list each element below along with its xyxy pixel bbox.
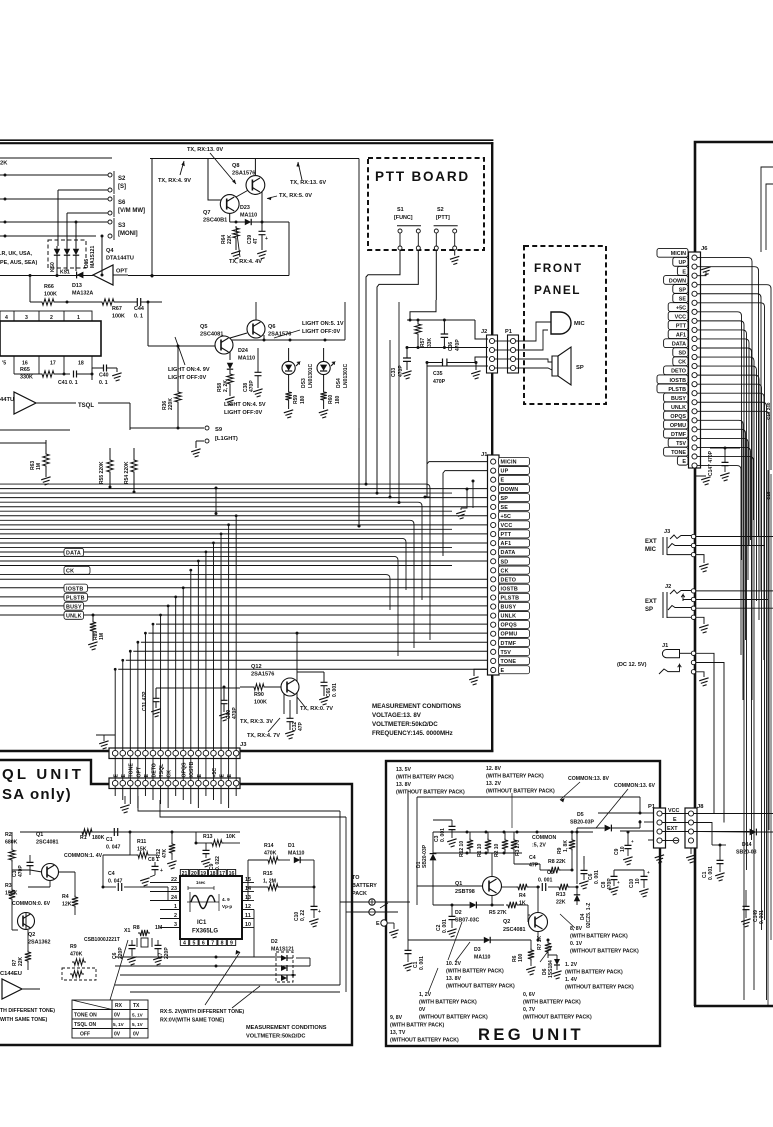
capacitor C41 0.1 xyxy=(74,371,77,378)
svg-text:MEASUREMENT CONDITIONS: MEASUREMENT CONDITIONS xyxy=(372,703,461,710)
svg-text:DATA: DATA xyxy=(672,342,686,348)
wire bus SD row xyxy=(0,560,488,562)
capacitor C1 0.047 tsql xyxy=(114,828,117,836)
wire right long verticals xyxy=(767,470,769,1006)
svg-text:R11: R11 xyxy=(137,839,146,845)
wire row S3 xyxy=(0,221,108,223)
ground ext sp xyxy=(696,617,704,624)
svg-text:IOSTB: IOSTB xyxy=(670,378,687,384)
svg-text:02CZ5. 1-Z: 02CZ5. 1-Z xyxy=(586,903,592,928)
svg-text:2SC40B1: 2SC40B1 xyxy=(203,218,227,224)
svg-text:0V: 0V xyxy=(114,1013,121,1019)
svg-text:MA110: MA110 xyxy=(240,213,257,219)
svg-text:0, 7V: 0, 7V xyxy=(523,1007,536,1013)
wire tsql top wire xyxy=(20,831,110,833)
wire q1 emitter xyxy=(491,896,493,906)
svg-text:2SA1576: 2SA1576 xyxy=(232,171,255,177)
svg-text:5: 5 xyxy=(192,941,195,947)
svg-text:MICIN: MICIN xyxy=(671,251,686,257)
svg-text:COMMON: COMMON xyxy=(532,835,556,841)
svg-text:C13 240: C13 240 xyxy=(766,402,771,420)
svg-text:470P: 470P xyxy=(455,339,461,351)
node J6 pin CK xyxy=(673,357,688,366)
svg-text:(WITHOUT BATTERY PACK): (WITHOUT BATTERY PACK) xyxy=(446,984,515,990)
svg-text:1. 4V: 1. 4V xyxy=(565,977,578,983)
node J1 pin OPQS xyxy=(499,620,530,628)
svg-text:(WITHOUT BATTERY PACK): (WITHOUT BATTERY PACK) xyxy=(390,1038,459,1044)
svg-text:J8: J8 xyxy=(697,804,704,810)
node J6 pin IOSTB xyxy=(657,375,688,384)
svg-text:J2: J2 xyxy=(665,584,671,590)
svg-text:VCC: VCC xyxy=(675,314,686,320)
wire ext sp out xyxy=(696,590,773,592)
svg-text:Q1: Q1 xyxy=(36,832,43,838)
svg-text:47P: 47P xyxy=(298,721,304,731)
svg-text:D2: D2 xyxy=(455,910,462,916)
resistor R13 22K reg xyxy=(557,884,570,890)
capacitor C44 0.1 xyxy=(137,298,140,306)
switch S6 [V/M MW] xyxy=(108,197,112,201)
resistor R89 1M xyxy=(92,615,94,620)
svg-text:SD: SD xyxy=(679,351,687,357)
svg-text:15K: 15K xyxy=(137,847,147,853)
svg-text:(WITHOUT BATTERY PACK): (WITHOUT BATTERY PACK) xyxy=(565,985,634,991)
svg-text:S2: S2 xyxy=(437,207,444,213)
wire top feed rail xyxy=(150,158,359,160)
svg-text:DATA: DATA xyxy=(66,551,81,557)
svg-text:OPQS: OPQS xyxy=(670,414,686,420)
svg-text:Q6: Q6 xyxy=(268,324,275,330)
svg-text:MA132A: MA132A xyxy=(72,291,93,297)
node J6 pin DETO xyxy=(664,366,688,375)
svg-text:2SA1362: 2SA1362 xyxy=(28,940,50,946)
svg-text:R1: R1 xyxy=(80,835,87,841)
node J1 pin DOWN xyxy=(499,485,530,493)
wire j1 gnd stub xyxy=(474,669,488,676)
svg-text:470P: 470P xyxy=(18,865,24,877)
svg-text:TX, RX:13. 0V: TX, RX:13. 0V xyxy=(187,147,223,153)
svg-text:0. 022: 0. 022 xyxy=(215,856,221,870)
svg-text:[V/M MW]: [V/M MW] xyxy=(118,208,145,214)
svg-text:OPT: OPT xyxy=(116,269,128,275)
node J6 pin BUSY xyxy=(664,393,688,402)
node J1 pin TONE xyxy=(499,657,530,665)
svg-text:IOSTB: IOSTB xyxy=(501,586,518,592)
svg-text:1, 2V: 1, 2V xyxy=(419,992,432,998)
wire led rail xyxy=(263,335,265,340)
svg-text:+: + xyxy=(160,868,163,874)
ground J6 E pin xyxy=(697,272,706,276)
wire main unit right border xyxy=(491,142,493,752)
node J6 pin OPMU xyxy=(664,420,688,429)
svg-text:[FUNC]: [FUNC] xyxy=(394,215,413,221)
svg-text:E: E xyxy=(227,774,233,778)
svg-text:5, 1V: 5, 1V xyxy=(132,1013,144,1018)
svg-text:E: E xyxy=(682,459,686,465)
svg-text:Q2: Q2 xyxy=(28,932,35,938)
svg-text:21: 21 xyxy=(182,871,188,877)
svg-text:16: 16 xyxy=(229,871,235,877)
node J6 pin UP xyxy=(673,257,688,266)
svg-text:IC1: IC1 xyxy=(197,920,207,926)
svg-text:12K: 12K xyxy=(62,902,72,908)
microphone MIC xyxy=(551,312,571,334)
switch S2 [S] xyxy=(108,173,112,177)
wire row S6 xyxy=(0,198,108,200)
svg-text:VOLTMETER:50kΩ/DC: VOLTMETER:50kΩ/DC xyxy=(372,721,438,728)
svg-text:(WITH BATTERY PACK): (WITH BATTERY PACK) xyxy=(419,1000,477,1006)
svg-text:MA110: MA110 xyxy=(238,356,255,362)
wire right unit border xyxy=(695,142,773,1006)
svg-text:J1: J1 xyxy=(662,643,668,649)
svg-text:COMMON:13. 6V: COMMON:13. 6V xyxy=(614,783,655,789)
svg-text:PLSTB: PLSTB xyxy=(668,387,686,393)
svg-text:18: 18 xyxy=(78,361,84,367)
svg-text:CK: CK xyxy=(678,360,686,366)
svg-text:R67: R67 xyxy=(112,306,122,312)
wire right edge stubs xyxy=(761,167,773,252)
svg-text:S1: S1 xyxy=(397,207,404,213)
wire q12 emitter xyxy=(296,693,298,714)
svg-text:REG UNIT: REG UNIT xyxy=(478,1026,584,1044)
svg-text:R66: R66 xyxy=(44,284,54,290)
svg-text:(WITH BATTERY PACK): (WITH BATTERY PACK) xyxy=(396,775,454,781)
svg-text:1: 1 xyxy=(77,315,80,321)
svg-text:4: 4 xyxy=(5,315,8,321)
svg-text:EXT: EXT xyxy=(645,539,657,545)
wire micin feed xyxy=(425,496,430,498)
node J6 pin TONE xyxy=(664,447,688,456)
svg-text:(WITHOUT BATTERY PACK): (WITHOUT BATTERY PACK) xyxy=(396,790,465,796)
wire row S2 xyxy=(0,174,108,176)
svg-text:.R, UK, USA,: .R, UK, USA, xyxy=(0,251,33,257)
op-amp buffer OPT xyxy=(93,265,113,285)
svg-text:8, 8V: 8, 8V xyxy=(570,926,583,932)
svg-text:Q8: Q8 xyxy=(232,163,239,169)
svg-text:+5C: +5C xyxy=(212,768,218,778)
svg-text:BUSY: BUSY xyxy=(66,604,82,610)
svg-text:PANEL: PANEL xyxy=(534,283,581,297)
svg-text:SP: SP xyxy=(501,496,509,502)
wire q2 collector xyxy=(537,887,539,913)
svg-text:8: 8 xyxy=(221,941,224,947)
svg-text:VOLTAGE:13. 8V: VOLTAGE:13. 8V xyxy=(372,712,422,719)
svg-text:0V: 0V xyxy=(114,1032,121,1038)
svg-text:D23: D23 xyxy=(240,205,250,211)
wire main unit bottom border xyxy=(0,750,493,752)
svg-text:VOLTMETER:50kΩ/DC: VOLTMETER:50kΩ/DC xyxy=(246,1034,305,1040)
node J6 pin OPQS xyxy=(664,411,688,420)
svg-text:R54 220K: R54 220K xyxy=(124,461,130,484)
svg-text:4. 9: 4. 9 xyxy=(222,897,230,902)
node battery minus xyxy=(369,909,375,915)
node J6 pin MICIN xyxy=(657,248,688,257)
svg-text:(WITH BATTERY PACK): (WITH BATTERY PACK) xyxy=(523,1000,581,1006)
node J6 pin PLSTB xyxy=(657,384,688,393)
svg-text:0. 1: 0. 1 xyxy=(99,380,108,386)
svg-text:C44: C44 xyxy=(134,306,144,312)
svg-text:TSQL ON: TSQL ON xyxy=(74,1022,97,1028)
svg-text:180: 180 xyxy=(300,395,306,404)
node J1 pin BUSY xyxy=(499,602,530,610)
wire to battery terminals xyxy=(340,901,371,903)
svg-text:TX, RX:4. 7V: TX, RX:4. 7V xyxy=(247,733,280,739)
svg-text:47P: 47P xyxy=(529,863,539,869)
svg-text:0. 047: 0. 047 xyxy=(106,845,121,851)
svg-text:MA110: MA110 xyxy=(288,851,305,857)
node BUSY xyxy=(0,605,488,607)
svg-text:OPT: OPT xyxy=(136,766,142,777)
svg-text:D3: D3 xyxy=(474,947,481,953)
svg-text:SB20-03: SB20-03 xyxy=(736,850,757,856)
svg-text:E: E xyxy=(501,668,505,674)
wire row lower xyxy=(0,235,96,237)
svg-text:TH DIFFERENT TONE): TH DIFFERENT TONE) xyxy=(0,1008,55,1014)
svg-text:0. 001: 0. 001 xyxy=(538,878,553,884)
svg-text:22K: 22K xyxy=(227,234,233,244)
svg-text:R1 10: R1 10 xyxy=(477,843,483,857)
svg-text:(WITH BATTERY PACK): (WITH BATTERY PACK) xyxy=(565,970,623,976)
svg-text:18: 18 xyxy=(210,871,216,877)
svg-text:C4: C4 xyxy=(108,871,115,877)
svg-text:[L1GHT): [L1GHT) xyxy=(215,436,238,442)
wire node rail lower xyxy=(407,347,488,349)
svg-text:13. 2V: 13. 2V xyxy=(486,781,502,787)
svg-text:R59: R59 xyxy=(293,395,299,404)
svg-text:7: 7 xyxy=(211,941,214,947)
svg-text:SP: SP xyxy=(679,287,687,293)
switch S3 [MONI] xyxy=(108,220,112,224)
svg-text:R13: R13 xyxy=(203,834,213,840)
svg-text:33K: 33K xyxy=(427,337,433,347)
svg-text:R12 10: R12 10 xyxy=(459,841,465,857)
wire c44 to q5 xyxy=(147,302,149,346)
wire j2 down xyxy=(426,363,428,498)
svg-text:13, TV: 13, TV xyxy=(390,1030,406,1036)
svg-text:2SC4081: 2SC4081 xyxy=(36,840,58,846)
node J1 pin UP xyxy=(499,466,530,474)
svg-text:(WITH BATTRY PACK): (WITH BATTRY PACK) xyxy=(390,1023,445,1029)
svg-text:PACK: PACK xyxy=(352,891,367,897)
svg-text:T5V: T5V xyxy=(501,650,512,656)
diode array D15 MA1S121 xyxy=(48,240,86,268)
ground ext mic xyxy=(696,555,704,563)
svg-text:R5 27K: R5 27K xyxy=(489,910,507,916)
svg-text:0. 001: 0. 001 xyxy=(759,910,765,924)
connector J3 bottom row xyxy=(109,778,240,789)
node battery plus xyxy=(369,899,375,905)
svg-text:DS3: DS3 xyxy=(301,378,307,388)
svg-text:J6: J6 xyxy=(701,246,708,252)
svg-text:DETO: DETO xyxy=(501,577,517,583)
svg-text:D1: D1 xyxy=(288,843,295,849)
svg-text:PLSTB: PLSTB xyxy=(66,595,85,601)
wire moni row xyxy=(0,275,93,277)
svg-text:C36: C36 xyxy=(448,342,454,351)
svg-text:D2: D2 xyxy=(271,939,278,945)
svg-text:680K: 680K xyxy=(5,840,18,846)
svg-text:0. 001: 0. 001 xyxy=(440,828,446,842)
resistor R4 1K reg xyxy=(516,884,529,890)
svg-text:IOSTB: IOSTB xyxy=(189,761,195,777)
svg-text:MIC: MIC xyxy=(574,321,585,327)
svg-text:PTT BOARD: PTT BOARD xyxy=(375,169,470,184)
svg-text:KS0: KS0 xyxy=(50,262,56,272)
svg-text:COMMON:13. 8V: COMMON:13. 8V xyxy=(568,776,609,782)
svg-text:C33: C33 xyxy=(391,368,397,377)
node J1 pin IOSTB xyxy=(499,584,530,592)
wire verticals to bus xyxy=(215,488,217,514)
svg-text:OFF: OFF xyxy=(80,1032,90,1038)
svg-text:180: 180 xyxy=(335,395,341,404)
svg-text:R4: R4 xyxy=(519,893,526,899)
svg-text:SP: SP xyxy=(645,607,653,613)
svg-text:2, 2K: 2, 2K xyxy=(223,380,229,392)
svg-text:C41 0. 1: C41 0. 1 xyxy=(58,380,78,386)
LED D53 LND1301C xyxy=(282,361,295,374)
svg-text:2SBT98: 2SBT98 xyxy=(455,889,475,895)
node J1 pin PLSTB xyxy=(499,593,530,601)
PTT BOARD box xyxy=(368,158,484,250)
svg-text:20: 20 xyxy=(191,871,197,877)
wire reg rail 855 xyxy=(433,852,522,854)
wire j2 pin4 xyxy=(427,365,488,367)
svg-text:OPQS: OPQS xyxy=(501,623,518,629)
wire reg leader 12.8 xyxy=(511,793,513,828)
svg-text:0. 001: 0. 001 xyxy=(332,683,338,697)
svg-text:PE, AUS, SEA): PE, AUS, SEA) xyxy=(0,260,37,266)
node J1 pin OPMU xyxy=(499,630,530,638)
wire q7 q8 links xyxy=(236,191,248,198)
svg-text:C1: C1 xyxy=(106,837,113,843)
table tone matrix xyxy=(72,1000,148,1038)
svg-text:TSQL: TSQL xyxy=(159,763,165,778)
node J1 pin DATA xyxy=(499,548,530,556)
svg-text:DTMF: DTMF xyxy=(501,641,517,647)
node UNLK xyxy=(0,614,488,616)
svg-text:SP: SP xyxy=(576,365,584,371)
node J6 pin VCC xyxy=(668,312,688,321)
svg-text:D5: D5 xyxy=(577,812,584,818)
svg-text:0V: 0V xyxy=(133,1032,140,1038)
svg-text:C15: C15 xyxy=(766,491,771,500)
svg-text:CK: CK xyxy=(167,770,173,778)
svg-text:E: E xyxy=(144,774,150,778)
wire j3 pin links xyxy=(114,756,116,781)
svg-text:220K: 220K xyxy=(168,398,174,410)
wire j1 down gnd pair xyxy=(461,489,467,508)
svg-text:TX, RX:5. 0V: TX, RX:5. 0V xyxy=(279,193,312,199)
svg-text:9: 9 xyxy=(230,941,233,947)
svg-text:TX, RX:4. 4V: TX, RX:4. 4V xyxy=(229,259,262,265)
node J6 pin E xyxy=(677,266,688,275)
svg-text:COMMON:1. 4V: COMMON:1. 4V xyxy=(64,853,103,859)
capacitor C40 0.1 xyxy=(104,365,107,372)
svg-text:1SS184: 1SS184 xyxy=(548,960,554,978)
svg-text:Q12: Q12 xyxy=(251,664,262,670)
svg-text:16: 16 xyxy=(22,361,28,367)
wire ptt outputs xyxy=(366,250,400,484)
svg-text:1M: 1M xyxy=(36,463,42,470)
svg-text:R13: R13 xyxy=(556,892,566,898)
node J6 pin E xyxy=(677,456,688,465)
wire keyline verticals xyxy=(57,190,59,246)
svg-text:BUSY: BUSY xyxy=(501,605,517,611)
svg-text:9, 8V: 9, 8V xyxy=(390,1015,403,1021)
svg-text:1. 2V: 1. 2V xyxy=(565,962,578,968)
svg-text:IOSTB: IOSTB xyxy=(66,586,83,592)
svg-text:44TU: 44TU xyxy=(0,397,14,403)
svg-text:TONE ON: TONE ON xyxy=(74,1013,97,1019)
wire tsql xyxy=(50,402,76,404)
ground P1 xyxy=(659,848,661,854)
svg-text:2: 2 xyxy=(50,315,53,321)
svg-text:SA only): SA only) xyxy=(2,786,72,803)
svg-text:TONE: TONE xyxy=(129,763,135,778)
node J6 pin T5V xyxy=(668,438,688,447)
svg-text:+: + xyxy=(631,839,634,844)
svg-text:AF1: AF1 xyxy=(501,541,512,547)
node J6 pin PTT xyxy=(668,321,688,330)
svg-text:0. 1V: 0. 1V xyxy=(570,941,583,947)
svg-text:C35: C35 xyxy=(433,371,443,377)
svg-text:DETO: DETO xyxy=(151,763,157,777)
wire j3 to reg rails xyxy=(138,796,340,811)
ground ic filters xyxy=(116,368,118,372)
resistor dashed option xyxy=(62,968,96,980)
svg-text:R60: R60 xyxy=(328,395,334,404)
node J1 pin SP xyxy=(499,494,530,502)
svg-text:OPMU: OPMU xyxy=(501,632,518,638)
svg-text:5, 1V: 5, 1V xyxy=(132,1022,144,1027)
svg-text:19: 19 xyxy=(200,871,206,877)
svg-text:S3: S3 xyxy=(118,223,126,229)
node J1 pin SE xyxy=(499,503,530,511)
svg-text:C5: C5 xyxy=(547,870,554,876)
svg-text:+: + xyxy=(617,880,620,885)
wire bus intermediate drops xyxy=(0,484,430,640)
svg-text:+: + xyxy=(647,870,650,875)
wire j3 bottom feeds xyxy=(114,786,116,796)
svg-text:22K: 22K xyxy=(18,956,24,966)
svg-text:E: E xyxy=(682,269,686,275)
svg-text:R55 220K: R55 220K xyxy=(99,461,105,484)
svg-text:MA110: MA110 xyxy=(474,955,491,961)
svg-text:13. 5V: 13. 5V xyxy=(396,767,412,773)
svg-text:C8 1: C8 1 xyxy=(148,857,159,863)
node J1 pin VCC xyxy=(499,521,530,529)
svg-text:LN01301C: LN01301C xyxy=(308,363,314,388)
svg-text:EXT: EXT xyxy=(645,599,657,605)
svg-text:22K: 22K xyxy=(556,900,566,906)
svg-text:R7 1K: R7 1K xyxy=(537,935,543,950)
svg-text:UP: UP xyxy=(501,469,509,475)
svg-text:TX, RX:13. 6V: TX, RX:13. 6V xyxy=(290,180,326,186)
svg-text:0, 6V: 0, 6V xyxy=(523,992,536,998)
ground j3 left xyxy=(103,735,105,741)
svg-text:UNLK: UNLK xyxy=(671,405,686,411)
wire tsql leader lines xyxy=(110,940,240,1005)
svg-text:R2 10: R2 10 xyxy=(494,843,500,857)
svg-text:+5C: +5C xyxy=(501,514,512,520)
svg-text:180K: 180K xyxy=(92,835,105,841)
wire TSQL unit border xyxy=(0,760,352,1045)
svg-text:S2: S2 xyxy=(118,176,126,182)
svg-text:RX:5. 2V(WITH DIFFERENT TONE): RX:5. 2V(WITH DIFFERENT TONE) xyxy=(160,1009,244,1015)
svg-text:R9: R9 xyxy=(70,944,77,950)
svg-text:1K: 1K xyxy=(519,901,526,907)
wire p1 to sp xyxy=(516,359,552,362)
